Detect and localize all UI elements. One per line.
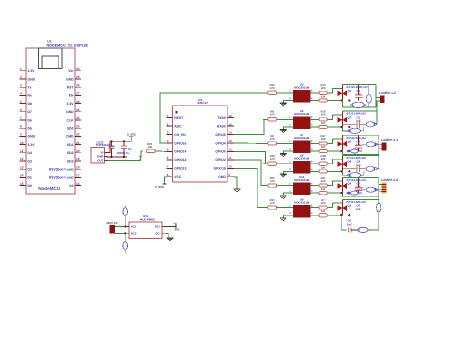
- svg-text:26: 26: [76, 100, 80, 104]
- svg-text:220: 220: [321, 210, 326, 213]
- svg-text:EN: EN: [69, 94, 74, 98]
- svg-text:Q7: Q7: [348, 115, 352, 119]
- resistor R11 220: [315, 185, 319, 187]
- U1 pin 6 GPIO12: [166, 159, 172, 161]
- svg-text:5: 5: [20, 100, 22, 104]
- U11 pin DC+: [162, 225, 166, 227]
- capacitor C6: [348, 227, 350, 232]
- junction: [123, 156, 125, 158]
- series capacitor: [342, 123, 357, 125]
- svg-text:Q3: Q3: [348, 204, 352, 208]
- wire C6 to fuse: [351, 229, 357, 231]
- junction: [124, 232, 126, 234]
- U1 pin 12 GPIO0: [227, 150, 234, 152]
- triac Q3 BT131-600,412: [341, 199, 343, 215]
- svg-text:220: 220: [321, 188, 326, 191]
- svg-text:13: 13: [20, 165, 24, 169]
- fuse oval to lamp: [362, 143, 382, 145]
- svg-text:220: 220: [321, 146, 326, 149]
- svg-text:D5: D5: [28, 127, 32, 131]
- wire opto pin4: [310, 150, 315, 152]
- U1 pin 13 GPIO4: [227, 142, 234, 144]
- svg-text:220: 220: [321, 201, 326, 205]
- svg-text:RXD0: RXD0: [217, 124, 226, 128]
- U2 pin 10 3.3V: [20, 144, 27, 146]
- svg-text:Vin: Vin: [68, 69, 73, 73]
- svg-text:AC2: AC2: [131, 231, 137, 235]
- wire resistor to opto pin1: [277, 142, 294, 144]
- snubber capacitor: [358, 177, 360, 187]
- U1 pin 10 GPIO15: [227, 167, 234, 169]
- svg-text:220: 220: [321, 122, 326, 125]
- wire pair 1-2 vertical: [376, 101, 378, 124]
- resistor R25: [146, 149, 155, 152]
- svg-text:Q4: Q4: [348, 182, 352, 186]
- svg-text:470: 470: [270, 113, 275, 117]
- wire OUT net: [108, 160, 140, 162]
- svg-text:D6: D6: [28, 118, 32, 122]
- svg-text:Tx: Tx: [28, 86, 32, 90]
- resistor R9 470: [268, 118, 277, 121]
- U2 pin 16 A0: [75, 185, 81, 187]
- wire gate: [327, 192, 342, 194]
- svg-text:14: 14: [20, 174, 24, 178]
- junction: [348, 214, 350, 216]
- wire snubber top rail: [342, 134, 378, 136]
- resistor R13 220: [315, 92, 319, 94]
- wire to triac MT2: [327, 139, 342, 144]
- svg-text:GPIO2: GPIO2: [215, 158, 225, 162]
- U2 pin 26 3.3V: [75, 103, 81, 105]
- wire opto pin2 to ground: [283, 193, 293, 196]
- wire resistor to opto pin1: [277, 118, 294, 120]
- wire to triac MT2: [327, 181, 342, 186]
- wire VCC to 3_3V2: [165, 177, 167, 184]
- wire GND rail: [107, 156, 127, 158]
- wire lower oval return: [361, 127, 364, 131]
- svg-text:10: 10: [20, 141, 24, 145]
- wire to resistor R15: [263, 207, 268, 209]
- svg-text:LAMPA 5-6: LAMPA 5-6: [381, 178, 398, 182]
- ground under opto: [280, 154, 287, 157]
- svg-text:LAMPA 1-2: LAMPA 1-2: [379, 91, 396, 95]
- svg-text:REST: REST: [174, 116, 184, 120]
- optocoupler U3 MOC3021M: [293, 90, 310, 102]
- resistor R16 220: [315, 118, 319, 120]
- U1 pin 11 GPIO2: [227, 159, 234, 161]
- junction: [340, 214, 342, 216]
- U2 pin 3 Tx: [20, 86, 27, 88]
- lower fuse oval: [342, 127, 348, 131]
- triac Q7 BT131-600,412: [341, 111, 343, 127]
- wire resistor to opto pin1: [277, 207, 294, 209]
- optocoupler U6 MOC3021M: [293, 161, 310, 173]
- svg-text:MOC3021M: MOC3021M: [294, 200, 310, 204]
- lower fuse oval: [350, 104, 366, 106]
- U1 pin 4 GPIO16: [166, 142, 172, 144]
- junction: [110, 156, 112, 158]
- U1 pin 7 GPIO13: [166, 167, 172, 169]
- lower fuse oval: [342, 171, 348, 175]
- svg-text:470: 470: [270, 157, 275, 161]
- svg-text:10: 10: [228, 165, 232, 169]
- wire to triac MT2: [327, 115, 342, 120]
- svg-text:3.3V: 3.3V: [67, 102, 75, 106]
- U1 pin 9 GND: [227, 176, 234, 178]
- wire opto pin2 to ground: [283, 171, 293, 174]
- svg-text:Q6: Q6: [348, 160, 352, 164]
- wire to triac MT2: [327, 88, 342, 93]
- svg-text:8: 8: [20, 124, 22, 128]
- resistor R19 470: [268, 162, 277, 165]
- optocoupler U9 MOC3021M: [293, 205, 310, 217]
- resistor R12 470: [268, 91, 277, 94]
- svg-text:D3: D3: [28, 159, 32, 163]
- svg-text:9: 9: [20, 133, 22, 137]
- svg-text:2: 2: [20, 75, 22, 79]
- wire GPIO15 to row6: [234, 168, 268, 207]
- svg-text:RST: RST: [67, 86, 75, 90]
- U1 pin 1 REST: [166, 117, 172, 119]
- wire opto pin2 to ground: [283, 215, 293, 218]
- wire to R25: [140, 151, 144, 161]
- wire to lamp pin1: [379, 183, 382, 185]
- U2 pin 21 SD1: [75, 144, 81, 146]
- U2 pin 9 GND: [20, 135, 27, 137]
- svg-text:AC1: AC1: [131, 225, 137, 229]
- svg-text:15: 15: [20, 182, 24, 186]
- wire fuse to pair vertical: [368, 229, 379, 231]
- svg-text:15: 15: [228, 122, 232, 126]
- fuse oval to lamp return: [366, 122, 374, 127]
- svg-text:220: 220: [321, 179, 326, 183]
- svg-text:CLK: CLK: [67, 118, 75, 122]
- capacitor: [123, 141, 125, 146]
- wire snubber left edge: [341, 151, 343, 155]
- wire opto pin6: [310, 207, 315, 209]
- wire to resistor R9: [263, 118, 268, 120]
- U1 pin 2 ADC: [166, 125, 172, 127]
- svg-text:1: 1: [20, 67, 22, 71]
- svg-text:17: 17: [76, 174, 80, 178]
- wire snubber bottom rail: [342, 154, 378, 156]
- U1 pin 5 GPIO14: [166, 150, 172, 152]
- wire gate: [327, 214, 342, 216]
- U1 pin 8 VCC: [166, 176, 172, 178]
- wire gate: [327, 126, 342, 128]
- fuse oval after C6: [358, 227, 368, 232]
- U1 pin 16 TXD0: [227, 117, 234, 119]
- svg-text:30: 30: [76, 67, 80, 71]
- U2 pin 2 GND: [20, 78, 27, 80]
- svg-text:Q5: Q5: [348, 139, 352, 143]
- wire snubber left edge: [341, 100, 343, 106]
- wire resistor to opto pin1: [277, 92, 294, 94]
- wire cap to fuse oval: [360, 123, 367, 125]
- svg-text:1000/4.7u: 1000/4.7u: [117, 151, 130, 155]
- wire snubber top rail: [342, 84, 375, 86]
- net flag arc: [139, 156, 141, 161]
- svg-text:VCC: VCC: [174, 175, 182, 179]
- triac Q2 BT136-600E,127: [341, 85, 343, 101]
- svg-text:GPIO16: GPIO16: [174, 141, 186, 145]
- connector LAMPA 1-2: [380, 96, 385, 103]
- wire cap to fuse oval: [360, 168, 367, 170]
- wire to resistor R6: [263, 142, 268, 144]
- wire to lamp pin1: [376, 97, 380, 99]
- U1 pin 3 CH_PD: [166, 134, 172, 136]
- triac Q4 BT131-600,412: [341, 177, 343, 193]
- resistor R18 220: [315, 163, 319, 165]
- wire to lamp pin2: [379, 190, 382, 192]
- junction: [348, 192, 350, 194]
- wire gate: [327, 170, 342, 172]
- svg-text:GPIO4: GPIO4: [215, 141, 225, 145]
- svg-text:DC+: DC+: [155, 225, 161, 229]
- resistor 220 on pin4: [315, 126, 319, 128]
- svg-text:GPIO13: GPIO13: [174, 167, 186, 171]
- connector LAMPA 3-4: [382, 142, 387, 150]
- svg-text:RSV(Don’t use): RSV(Don’t use): [49, 168, 74, 172]
- U9 pin VI: [104, 152, 107, 154]
- wire pair 5-6 vertical: [378, 191, 380, 230]
- U2 pin 22 CMD: [75, 135, 81, 137]
- resistor 220 on pin4: [315, 170, 319, 172]
- U11 pin DC-: [162, 232, 166, 234]
- fuse F2: [123, 242, 128, 250]
- wire opto pin4: [310, 99, 315, 101]
- junction: [124, 225, 126, 227]
- resistor 220 on pin4: [315, 99, 319, 101]
- svg-text:11: 11: [228, 156, 232, 160]
- wire opto pin6: [310, 185, 315, 187]
- svg-text:ESP-07: ESP-07: [198, 101, 209, 105]
- U9 pin OUT: [104, 160, 107, 162]
- U2 pin 28 RST: [75, 86, 81, 88]
- svg-text:3.3V: 3.3V: [28, 143, 36, 147]
- wire rail to VI: [108, 141, 110, 152]
- U2 pin 24 CLK: [75, 119, 81, 121]
- wire opto pin4: [310, 170, 315, 172]
- svg-text:D1: D1: [28, 176, 32, 180]
- svg-text:SD2: SD2: [67, 151, 74, 155]
- wire row6 lower branch: [341, 215, 346, 230]
- svg-text:470: 470: [270, 201, 275, 205]
- resistor 220 on pin4: [315, 214, 319, 216]
- ground under opto: [280, 196, 287, 199]
- wire AC vertical: [124, 205, 126, 226]
- svg-text:MOC3021M: MOC3021M: [294, 178, 310, 182]
- svg-text:16: 16: [228, 114, 232, 118]
- U9 pin GND: [104, 156, 107, 158]
- svg-text:220: 220: [321, 113, 326, 117]
- resistor R21 470: [268, 184, 277, 187]
- module U1 ESP-07 body: [173, 106, 228, 183]
- svg-text:A0: A0: [69, 184, 73, 188]
- svg-text:LAMPA 3-4: LAMPA 3-4: [381, 138, 398, 142]
- wire snubber left edge: [341, 193, 343, 197]
- U11 pin AC2: [125, 232, 130, 234]
- wire GPIO16 to row1: [160, 93, 263, 143]
- svg-text:NODEMCU_V1_ESP12E: NODEMCU_V1_ESP12E: [47, 43, 89, 47]
- junction: [340, 170, 342, 172]
- wire GPIO4 to row3: [234, 142, 263, 144]
- svg-text:230V AC: 230V AC: [106, 221, 119, 225]
- module U2 NODEMCU_V1_ESP12E body: [26, 48, 75, 194]
- wire opto pin6: [310, 163, 315, 165]
- junction: [340, 99, 342, 101]
- svg-text:TXD0: TXD0: [217, 116, 226, 120]
- wire opto pin6: [310, 142, 315, 144]
- wire GPIO2 to row5: [234, 160, 268, 186]
- svg-text:12: 12: [20, 157, 24, 161]
- wire gate: [327, 99, 342, 101]
- svg-text:RSV(Don’t use): RSV(Don’t use): [49, 176, 74, 180]
- svg-text:GND: GND: [218, 175, 226, 179]
- wire DC+ to 5V flag: [166, 225, 176, 227]
- wire opto pin2 to ground: [283, 127, 293, 130]
- resistor 220 on pin4: [315, 192, 319, 194]
- svg-text:6: 6: [20, 108, 22, 112]
- fuse oval to lamp return: [366, 166, 374, 171]
- svg-text:GPIO15: GPIO15: [214, 167, 226, 171]
- wire snubber bottom rail: [342, 196, 378, 198]
- U2 pin 27 EN: [75, 94, 81, 96]
- wire R25 to GPIO14: [155, 150, 166, 153]
- svg-text:27: 27: [76, 92, 80, 96]
- svg-text:24: 24: [76, 116, 80, 120]
- svg-text:220: 220: [321, 166, 326, 169]
- svg-text:13: 13: [228, 139, 232, 143]
- svg-text:100n: 100n: [109, 145, 115, 148]
- ground at DC-: [167, 238, 174, 241]
- ground under opto: [280, 130, 287, 133]
- svg-text:SD0: SD0: [67, 127, 74, 131]
- svg-text:GND: GND: [66, 110, 74, 114]
- junction: [348, 126, 350, 128]
- svg-text:16: 16: [76, 182, 80, 186]
- junction: [340, 214, 342, 216]
- wire even top rail: [342, 155, 378, 157]
- ground under opto: [280, 174, 287, 177]
- wire to lamp pin2: [379, 147, 382, 149]
- svg-text:220: 220: [321, 157, 326, 161]
- svg-text:Q2: Q2: [348, 89, 352, 93]
- wire opto pin4: [310, 192, 315, 194]
- svg-text:D7: D7: [28, 110, 32, 114]
- svg-text:19: 19: [76, 157, 80, 161]
- wire resistor to opto pin1: [277, 163, 294, 165]
- fuse oval on pair 5-6 vertical: [377, 203, 381, 211]
- svg-text:GPIO14: GPIO14: [174, 150, 186, 154]
- U2 pin 25 GND: [75, 111, 81, 113]
- svg-text:+5: +5: [174, 222, 178, 226]
- regulator U9 LE33 body: [91, 148, 104, 164]
- U2 pin 8 D5: [20, 127, 27, 129]
- wire opto pin2 to ground: [283, 100, 293, 103]
- svg-text:22: 22: [76, 133, 80, 137]
- U2 pin 12 D3: [20, 160, 27, 162]
- wire even top rail: [342, 110, 377, 112]
- junction: [340, 150, 342, 152]
- svg-text:220: 220: [321, 86, 326, 90]
- resistor R7 220: [315, 207, 319, 209]
- resistor R17 220: [315, 142, 319, 144]
- svg-text:NodeMCU: NodeMCU: [38, 186, 61, 191]
- wire pair 3-4 vertical: [378, 148, 380, 169]
- wire to triac MT2: [327, 203, 342, 208]
- U2 pin 1 3.3V: [20, 70, 27, 72]
- svg-text:GND: GND: [28, 135, 36, 139]
- svg-text:CH_PD: CH_PD: [174, 133, 186, 137]
- svg-text:20: 20: [76, 149, 80, 153]
- wire to resistor R21: [263, 185, 268, 187]
- svg-text:11: 11: [20, 149, 24, 153]
- capacitor: [110, 141, 112, 146]
- wire snubber bottom rail: [342, 106, 375, 108]
- wire AC2: [115, 232, 125, 234]
- svg-text:470: 470: [270, 137, 275, 141]
- wire even top rail: [342, 198, 378, 200]
- U2 pin 11 D4: [20, 152, 27, 154]
- svg-text:1nF: 1nF: [347, 222, 352, 226]
- wire AC1: [115, 225, 125, 227]
- wire to lamp pin2: [376, 100, 380, 102]
- wire GND pin to ground: [234, 177, 237, 189]
- junction: [340, 126, 342, 128]
- U2 pin 5 D8: [20, 103, 27, 105]
- svg-text:HLK-PM03: HLK-PM03: [140, 218, 155, 222]
- module U11 HLK-PM03 body: [129, 222, 162, 239]
- U2 antenna outline: [38, 48, 62, 68]
- optocoupler U5 MOC3021M: [293, 117, 310, 129]
- wire opto pin6: [310, 118, 315, 120]
- U1 pin 14 GPIO5: [227, 134, 234, 136]
- svg-text:3_3V2: 3_3V2: [155, 185, 164, 189]
- svg-text:D2: D2: [28, 168, 32, 172]
- triac Q5 BT136-600,412: [341, 135, 343, 151]
- wire gate: [327, 150, 342, 152]
- svg-text:470: 470: [270, 86, 275, 90]
- wire snubber top rail: [342, 176, 378, 178]
- wire to triac MT2: [327, 159, 342, 164]
- svg-text:OUT: OUT: [97, 159, 103, 163]
- U11 pin AC1: [125, 225, 130, 227]
- resistor R6 470: [268, 142, 277, 145]
- junction: [123, 140, 125, 142]
- lower fuse oval: [347, 192, 363, 194]
- fuse F1: [123, 208, 128, 216]
- snubber capacitor: [358, 85, 360, 95]
- U2 pin 18 RSV(Don’t use): [75, 168, 81, 170]
- svg-text:Rx: Rx: [28, 94, 32, 98]
- svg-text:DC-: DC-: [156, 231, 161, 235]
- svg-text:220: 220: [321, 137, 326, 141]
- U2 pin 29 GND: [75, 78, 81, 80]
- svg-text:CMD: CMD: [66, 135, 74, 139]
- wire snubber right edge: [375, 85, 377, 107]
- ground under opto: [280, 103, 287, 106]
- U2 pin 7 D6: [20, 119, 27, 121]
- resistor R15 470: [268, 206, 277, 209]
- svg-text:470: 470: [270, 179, 275, 183]
- junction: [110, 140, 112, 142]
- svg-text:1nF: 1nF: [356, 208, 361, 211]
- U2 pin 19 SD3: [75, 160, 81, 162]
- svg-text:21: 21: [76, 141, 80, 145]
- U2 pin 13 D2: [20, 168, 27, 170]
- series capacitor: [342, 168, 357, 170]
